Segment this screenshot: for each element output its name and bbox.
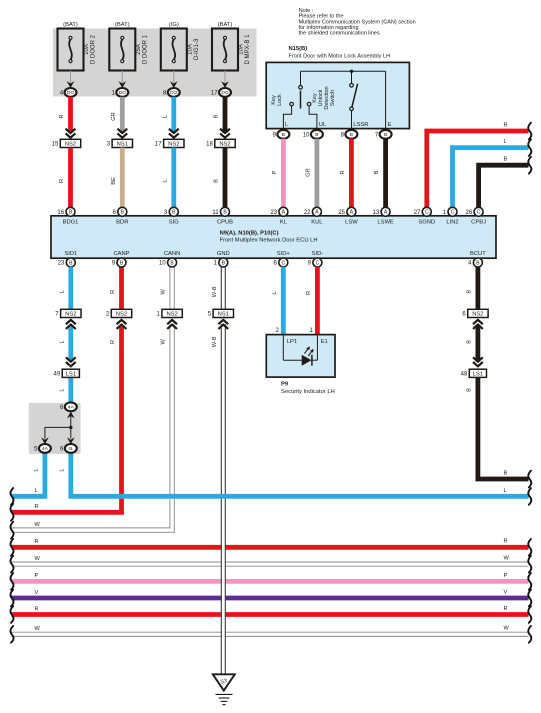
svg-text:SGND: SGND (418, 220, 435, 226)
wire L from junction 5-4A to left bus (12, 453, 45, 497)
wire P from N15 to ECU KL (281, 139, 286, 208)
connector B pin 7 of N15 (380, 130, 392, 139)
svg-text:B: B (504, 157, 508, 163)
wire GR from N15 to ECU KUL (314, 139, 319, 208)
ECU bottom pin 10 (B) (168, 258, 177, 267)
connector B pin 9 of N15 (277, 130, 289, 139)
wire R SID- to indicator (315, 267, 320, 335)
svg-text:L: L (59, 340, 65, 343)
wire W CANN to left bus (12, 267, 173, 530)
svg-text:R: R (35, 539, 39, 545)
svg-text:W: W (35, 626, 41, 632)
svg-text:W: W (504, 626, 510, 632)
svg-text:B: B (315, 132, 318, 138)
svg-text:BE: BE (111, 177, 117, 185)
wire L from DO to NS (171, 97, 176, 133)
connector 1 NS2 (166, 319, 178, 325)
connector DO pin 4 (65, 88, 77, 97)
svg-text:SIG: SIG (169, 220, 179, 226)
ECU pin 3 (B) (169, 207, 178, 216)
svg-text:DO: DO (67, 90, 75, 96)
ECU bottom pin 9 (C) (313, 258, 322, 267)
ECU pin 22 (A) (312, 207, 321, 216)
svg-text:LSSR: LSSR (353, 122, 368, 128)
svg-text:NS2: NS2 (65, 312, 76, 318)
connector DO pin 17 (219, 88, 231, 97)
svg-text:BCUT: BCUT (470, 251, 486, 257)
svg-text:P: P (504, 573, 508, 579)
svg-text:4L: 4L (68, 446, 74, 452)
svg-text:10A: 10A (239, 44, 245, 55)
svg-text:B: B (214, 114, 220, 118)
svg-text:LP1: LP1 (287, 339, 297, 345)
svg-text:C: C (451, 210, 455, 216)
ECU pin 23 (A) (279, 207, 288, 216)
svg-text:R: R (340, 170, 346, 174)
svg-text:B: B (467, 388, 473, 392)
key lock switch (300, 71, 302, 85)
svg-text:48: 48 (461, 371, 468, 377)
svg-text:CPUB: CPUB (217, 220, 233, 226)
svg-text:Switch: Switch (330, 90, 336, 106)
ECU pin 25 (A) (347, 207, 356, 216)
svg-text:Front Multiplex Network Door E: Front Multiplex Network Door ECU LH (220, 238, 318, 244)
wire fuse F2 output arrow (121, 71, 123, 85)
svg-text:25: 25 (338, 210, 345, 216)
wire fuse F4 output arrow (224, 71, 226, 85)
svg-text:15: 15 (52, 142, 59, 148)
svg-text:25A: 25A (136, 44, 142, 55)
svg-text:B: B (350, 132, 353, 138)
svg-text:W: W (161, 339, 167, 345)
svg-text:W: W (35, 556, 41, 562)
svg-text:DO: DO (170, 90, 178, 96)
svg-text:NS2: NS2 (168, 142, 179, 148)
svg-text:Lock: Lock (277, 94, 283, 106)
svg-text:W: W (161, 288, 167, 294)
wire E inside N15 (385, 71, 387, 128)
svg-text:10A: 10A (188, 44, 194, 55)
ECU bottom pin 8 (C) (279, 258, 288, 267)
svg-text:W-B: W-B (212, 336, 218, 347)
svg-text:L: L (34, 468, 40, 471)
svg-text:L: L (35, 488, 38, 494)
svg-text:Security Indicator LH: Security Indicator LH (281, 389, 335, 395)
wire L SID1 upper (68, 267, 73, 310)
svg-text:N15(B): N15(B) (289, 46, 308, 52)
right continuation marks (528, 123, 531, 140)
svg-text:L: L (504, 488, 507, 494)
wire V bus (12, 596, 529, 601)
svg-text:E: E (388, 122, 392, 128)
wire fuse F3 output arrow (173, 71, 175, 85)
connector 15 NS2 (66, 129, 76, 133)
svg-text:R: R (59, 179, 65, 183)
wire GR from DO to NS (120, 97, 125, 133)
wire fuse F1 output arrow (70, 71, 72, 85)
junction block gray box (29, 403, 81, 454)
ECU bottom pin 9 (B) (117, 258, 126, 267)
svg-text:LS1: LS1 (66, 371, 76, 377)
svg-text:KL: KL (280, 220, 288, 226)
ECU bottom pin 23 (B) (66, 258, 75, 267)
svg-text:B: B (467, 340, 473, 344)
svg-text:13: 13 (373, 210, 380, 216)
svg-text:R: R (306, 291, 312, 295)
svg-text:P: P (35, 573, 39, 579)
connector 6 4A (65, 402, 77, 411)
svg-text:CANP: CANP (113, 251, 129, 257)
svg-text:V: V (35, 590, 39, 596)
svg-text:23: 23 (270, 210, 277, 216)
ECU pin 16 (B) (66, 207, 75, 216)
ECU pin 27 (C) (422, 207, 431, 216)
connector 3 NS1 (117, 129, 127, 133)
svg-text:D-IG1-3: D-IG1-3 (194, 38, 200, 60)
connector B pin 10 of N15 (311, 130, 323, 139)
svg-text:R: R (504, 606, 508, 612)
svg-text:SID+: SID+ (277, 251, 291, 257)
wire L SID1 mid (68, 325, 73, 362)
wire BE from NS to ECU pin 6 (120, 148, 125, 208)
wire R from DO to NS (68, 97, 73, 133)
wire L from junction 6-4L to right bus (71, 453, 529, 497)
wire R CANP to left bus (12, 325, 122, 513)
svg-text:L: L (272, 291, 278, 294)
svg-text:D MPX-B 1: D MPX-B 1 (245, 34, 251, 65)
svg-text:W: W (35, 522, 41, 528)
svg-text:22: 22 (304, 210, 311, 216)
ground S3 (213, 674, 235, 690)
svg-text:B: B (374, 170, 380, 174)
svg-text:W: W (504, 556, 510, 562)
svg-text:B: B (214, 179, 220, 183)
wire L SID+ to indicator (281, 267, 286, 335)
wire B CPBJ from right (479, 165, 529, 207)
wire B from N15 to ECU LSWE (383, 139, 388, 208)
ECU pin 1 (C) (448, 207, 457, 216)
svg-text:DO: DO (221, 90, 229, 96)
wire B from NS to ECU pin 11 (223, 148, 228, 208)
svg-text:CPBJ: CPBJ (471, 220, 486, 226)
svg-text:GR: GR (111, 112, 117, 120)
svg-text:D DOOR 1: D DOOR 1 (143, 34, 149, 64)
svg-text:L: L (59, 388, 65, 391)
svg-text:P: P (272, 170, 278, 174)
svg-text:D DOOR 2: D DOOR 2 (91, 34, 97, 64)
wire R from NS to ECU pin 16 (68, 148, 73, 208)
wire B BCUT segment 1 (475, 267, 480, 309)
svg-text:10: 10 (159, 261, 166, 267)
svg-text:B: B (467, 290, 473, 294)
svg-text:R: R (35, 606, 39, 612)
wire B from DO to NS (223, 97, 228, 133)
svg-text:NS1: NS1 (218, 312, 229, 318)
svg-text:27: 27 (414, 210, 421, 216)
key lock contact to pin L (290, 102, 294, 106)
svg-text:SID-: SID- (312, 251, 324, 257)
svg-text:R: R (110, 340, 116, 344)
svg-text:KUL: KUL (311, 220, 323, 226)
svg-text:(BAT): (BAT) (115, 22, 130, 28)
svg-text:BDG1: BDG1 (63, 220, 79, 226)
svg-text:17: 17 (211, 91, 218, 97)
wire R from N15 to ECU LSW (349, 139, 354, 208)
svg-text:R: R (504, 539, 508, 545)
wire L LIN2 from right (453, 148, 529, 208)
svg-text:LS1: LS1 (473, 371, 483, 377)
svg-text:NS2: NS2 (116, 312, 127, 318)
wire W bus 2 (12, 631, 529, 633)
svg-text:B: B (504, 470, 508, 476)
svg-text:CANN: CANN (164, 251, 180, 257)
svg-text:49: 49 (54, 371, 61, 377)
wire W-B GND to ground point (222, 267, 225, 674)
ECU pin 13 (A) (381, 207, 390, 216)
svg-text:V: V (504, 589, 508, 595)
svg-text:C: C (316, 260, 320, 266)
ECU bottom pin 1 (B) (219, 258, 228, 267)
svg-text:N9(A), N10(B), P10(C): N9(A), N10(B), P10(C) (220, 230, 279, 236)
svg-text:L: L (162, 115, 168, 118)
svg-text:Front Door with Motor Lock Ass: Front Door with Motor Lock Assembly LH (289, 54, 391, 60)
ECU bottom pin 4 (B) (473, 258, 482, 267)
wire junction branch (70, 411, 72, 427)
svg-text:17: 17 (155, 142, 162, 148)
svg-text:P9: P9 (281, 382, 289, 388)
svg-text:C: C (281, 260, 285, 266)
svg-text:LIN2: LIN2 (446, 220, 458, 226)
connector 48 LS1 (473, 357, 483, 361)
svg-text:C: C (477, 210, 481, 216)
connector DO pin 1 (116, 88, 128, 97)
svg-text:R: R (35, 504, 39, 510)
connector B pin 8 of N15 (345, 130, 357, 139)
svg-text:L: L (162, 179, 168, 182)
svg-text:4A: 4A (68, 405, 75, 411)
ECU pin 26 (C) (474, 207, 483, 216)
svg-text:LSWE: LSWE (377, 220, 394, 226)
svg-text:18: 18 (206, 142, 213, 148)
connector 7 NS2 (65, 319, 77, 325)
svg-text:(BAT): (BAT) (218, 22, 233, 28)
svg-text:R: R (110, 290, 116, 294)
connector 6 4L (65, 444, 77, 453)
wire P bus (12, 579, 529, 584)
N15 Front Door with Motor Lock Assembly LH box (266, 62, 409, 128)
svg-text:(IG): (IG) (169, 22, 179, 28)
svg-text:L: L (59, 290, 65, 293)
connector 5 NS1 (217, 319, 229, 325)
svg-text:E1: E1 (321, 339, 328, 345)
svg-text:GND: GND (217, 251, 230, 257)
LED LP1 (302, 355, 312, 366)
connector 17 NS2 (169, 129, 179, 133)
wire B BCUT segment 2 (475, 325, 480, 362)
svg-text:LSW: LSW (345, 220, 358, 226)
connector 18 NS2 (220, 129, 230, 133)
svg-text:4A: 4A (42, 446, 49, 452)
ECU pin 6 (B) (118, 207, 127, 216)
svg-text:(BAT): (BAT) (63, 22, 78, 28)
P9 Security Indicator LH box (266, 335, 335, 378)
wire R bus 2 (12, 612, 529, 617)
svg-text:BDR: BDR (116, 220, 128, 226)
key unlock contact to pin UL (307, 102, 311, 106)
svg-text:the shielded communication lin: the shielded communication lines. (299, 31, 382, 37)
wire R CANP upper segment (119, 267, 124, 310)
svg-text:B: B (282, 132, 285, 138)
svg-text:NS1: NS1 (117, 142, 128, 148)
svg-text:NS2: NS2 (65, 142, 76, 148)
svg-text:R: R (59, 114, 65, 118)
connector 5 4A (39, 444, 51, 453)
wire R SGND from right (427, 131, 529, 208)
svg-text:L: L (59, 468, 65, 471)
wire L from NS to ECU pin 3 (171, 148, 176, 208)
connector 6 NS2 (472, 319, 484, 325)
connector DO pin 8 (168, 88, 180, 97)
wire R bus 1 (12, 545, 529, 550)
svg-text:UL: UL (319, 122, 327, 128)
connector 49 LS1 (66, 357, 76, 361)
svg-text:NS2: NS2 (219, 142, 230, 148)
ECU pin 11 (B) (221, 207, 230, 216)
svg-text:26: 26 (466, 210, 473, 216)
svg-text:C: C (425, 210, 429, 216)
node rail in N15 (301, 70, 386, 72)
svg-text:B: B (384, 132, 387, 138)
wire L SID1 lower (68, 377, 73, 402)
left continuation marks (10, 488, 13, 505)
svg-text:W-B: W-B (212, 286, 218, 297)
svg-text:R: R (504, 122, 508, 128)
svg-text:10: 10 (303, 132, 310, 138)
fuse block gray band (53, 29, 257, 97)
svg-text:11: 11 (212, 210, 219, 216)
svg-text:NS2: NS2 (166, 312, 177, 318)
svg-text:L: L (504, 139, 507, 145)
svg-text:16: 16 (57, 210, 64, 216)
svg-text:GR: GR (306, 168, 312, 176)
ECU N9(A), N10(B), P10(C) Front Multiplex Network Door ECU LH (51, 216, 496, 258)
wire W bus 1 (12, 561, 529, 563)
svg-text:SID1: SID1 (64, 251, 77, 257)
connector 2 NS2 (116, 319, 128, 325)
svg-text:10A: 10A (84, 44, 90, 55)
wire B BCUT to right bus (478, 377, 529, 479)
svg-text:23: 23 (58, 261, 65, 267)
svg-text:DO: DO (119, 90, 127, 96)
svg-text:NS2: NS2 (472, 312, 483, 318)
